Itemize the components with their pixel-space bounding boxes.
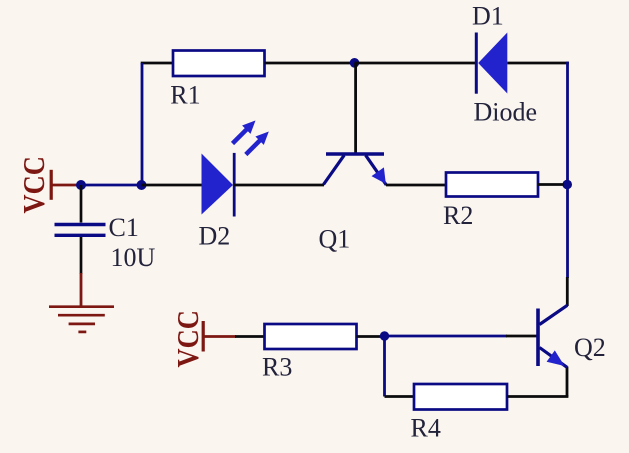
node E junction (R3 / R4 / Q2 base) [380, 331, 389, 340]
svg-text:Q2: Q2 [574, 333, 606, 362]
svg-text:R2: R2 [443, 201, 473, 230]
wire D1 to top-right corner [507, 62, 569, 65]
transistor Q2 emitter arrow [547, 350, 565, 366]
svg-text:10U: 10U [111, 243, 156, 272]
LED D2 cathode bar [233, 153, 236, 217]
wire Q2 emitter vertical [566, 367, 569, 397]
wire R3 right to node E [357, 335, 385, 338]
svg-text:D1: D1 [472, 2, 504, 31]
wire to R4 left [385, 395, 416, 398]
transistor Q1 base bar [326, 152, 384, 156]
wire node D to D2 anode [142, 184, 203, 187]
wire Q1 emitter to R2 [386, 184, 447, 187]
wire D2 cathode to Q1 collector leg [234, 184, 324, 187]
wire R2 right to node B [538, 183, 564, 186]
transistor Q1 emitter arrow [372, 167, 386, 183]
wire right vertical upper (corner down to node B) [566, 62, 569, 185]
diode D1 triangle [478, 33, 507, 94]
wire right vertical lower (node B to Q2 collector) [566, 185, 569, 279]
transistor Q2 emitter leg [540, 348, 568, 368]
node A junction (R1 / Q1 base / D1) [350, 58, 360, 68]
svg-text:R3: R3 [262, 353, 292, 382]
node C junction (VCC / C1 / wire) [76, 180, 86, 190]
resistor R3 [265, 324, 357, 349]
svg-text:Q1: Q1 [319, 225, 351, 254]
LED D2 triangle [202, 154, 234, 215]
svg-text:R4: R4 [411, 414, 441, 443]
wire R1 right to node A [265, 62, 355, 65]
transistor Q2 base bar [536, 309, 540, 367]
wire node C to node D [81, 184, 142, 187]
resistor R1 [173, 51, 265, 77]
resistor R2 [446, 173, 538, 197]
power VCC (lower) [172, 310, 236, 367]
capacitor C1 bottom plate [55, 234, 106, 237]
svg-text:R1: R1 [170, 80, 200, 109]
wire node D up to R1 [141, 63, 144, 185]
transistor Q1 collector leg [324, 155, 345, 184]
capacitor C1 top plate [55, 223, 106, 226]
resistor R4 [414, 384, 507, 410]
node B junction (R2 / right rail) [562, 180, 572, 190]
wire node E down [383, 336, 386, 397]
node D junction (R1 branch / D2) [137, 180, 147, 190]
wire node A to D1 anode [355, 62, 476, 65]
svg-text:VCC: VCC [172, 310, 205, 367]
wire C1 bottom plate to ground stem [80, 237, 83, 274]
capacitor C1 lead from node C [80, 185, 83, 223]
wire node E to Q2 base [385, 335, 508, 338]
svg-text:C1: C1 [109, 213, 139, 242]
transistor Q1 base pin (vertical from node A) [354, 63, 357, 153]
diode D1 cathode bar [475, 33, 478, 94]
LED D2 arrow 1 [233, 121, 256, 144]
transistor Q2 collector leg [540, 305, 568, 324]
svg-text:D2: D2 [199, 222, 231, 251]
LED D2 arrow 2 [246, 132, 269, 155]
svg-text:VCC: VCC [18, 156, 51, 213]
wire top-left horizontal (R1 left pin) [141, 62, 174, 65]
wire VCC lead to R3 [235, 335, 266, 338]
power VCC (left) [18, 156, 79, 213]
transistor Q1 emitter leg [366, 155, 387, 185]
ground [49, 273, 114, 332]
wire R4 right to Q2 emitter corner [507, 395, 568, 398]
svg-text:Diode: Diode [474, 98, 538, 127]
